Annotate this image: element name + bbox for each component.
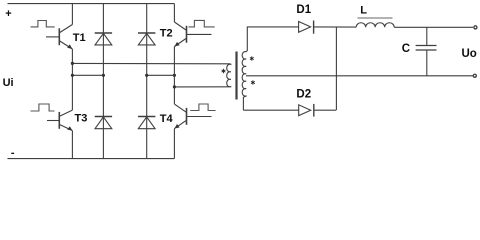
wire L to output top <box>394 26 473 28</box>
svg-text:T4: T4 <box>160 113 174 125</box>
wire lower bus segment A (leg1 to leg2) <box>72 74 103 76</box>
freewheel diode top-left on leg2 <box>95 33 112 45</box>
transformer secondary winding <box>242 51 247 110</box>
wire secondary center tap to output bottom <box>246 75 473 77</box>
transistor T4 (mirrored) <box>174 104 211 129</box>
wire negative input rail <box>8 158 175 160</box>
transistor T1 <box>46 25 72 50</box>
freewheel diode top-right on leg3 <box>138 33 155 45</box>
freewheel diode bottom-left on leg2 <box>95 117 112 129</box>
polarity dot primary <box>222 69 226 73</box>
transformer primary winding <box>227 64 231 87</box>
gate pulse waveform for T4 <box>190 104 215 111</box>
wire D1/D2 cathode join vertical <box>335 27 337 110</box>
wire node B to primary bottom <box>174 86 229 88</box>
svg-text:Uo: Uo <box>462 48 477 60</box>
wire leg2 (freewheel diode leg, top rail to bottom rail) <box>102 4 104 159</box>
svg-text:T2: T2 <box>160 28 173 40</box>
svg-text:+: + <box>5 8 11 20</box>
wire upper bridge bus node A to primary top <box>72 62 229 64</box>
polarity dot secondary top <box>250 56 254 60</box>
junction leg4 lower bus <box>173 74 176 77</box>
output terminal top <box>474 26 477 29</box>
gate pulse waveform for T3 <box>31 104 55 111</box>
wire positive input rail <box>8 3 175 5</box>
wire leg4 mid segment (T2 emitter to T4 collector, node B) <box>173 47 175 105</box>
transistor T3 <box>47 110 72 131</box>
wire leg1 collector segment (top rail to T1) <box>71 4 73 25</box>
wire leg4 bottom segment (T4 emitter to negative rail) <box>173 129 175 159</box>
gate pulse waveform for T2 <box>189 20 215 27</box>
wire leg1 bottom segment (T3 emitter to negative rail) <box>71 131 73 159</box>
svg-text:T3: T3 <box>75 112 88 124</box>
svg-text:-: - <box>11 147 15 159</box>
gate pulse waveform for T1 <box>31 21 55 27</box>
svg-text:C: C <box>402 43 410 55</box>
svg-text:T1: T1 <box>73 32 86 44</box>
svg-text:D1: D1 <box>296 4 311 16</box>
junction leg4 primary bottom <box>173 85 176 88</box>
junction leg2 lower bus <box>102 74 105 77</box>
svg-text:Ui: Ui <box>3 77 14 89</box>
capacitor C <box>416 27 437 76</box>
wire D2 cathode to join vertical <box>314 109 336 111</box>
transistor T2 (mirrored) <box>174 22 211 47</box>
wire leg1 mid segment (T1 emitter to T3 collector, node A) <box>71 49 73 110</box>
junction leg3 lower bus <box>145 74 148 77</box>
wire leg3 (freewheel diode leg, top rail to bottom rail) <box>146 4 148 159</box>
junction node A lower <box>71 74 74 77</box>
label L underline <box>358 17 393 19</box>
polarity dot secondary bottom <box>251 80 255 84</box>
transformer core <box>235 52 237 100</box>
junction node A upper <box>71 62 74 65</box>
wire lower bus segment B (leg3 to leg4) <box>147 74 175 76</box>
inductor L <box>356 23 394 28</box>
svg-text:D2: D2 <box>296 88 311 100</box>
wire secondary top lead up <box>247 27 298 51</box>
diode D1 <box>299 21 314 34</box>
svg-text:L: L <box>360 5 367 17</box>
freewheel diode bottom-right on leg3 <box>138 117 155 129</box>
wire D1 cathode to L node <box>314 26 357 28</box>
output terminal bottom <box>473 74 476 77</box>
wire secondary bottom lead to D2 <box>243 109 298 111</box>
wire leg4 collector segment (top rail to T2) <box>173 4 175 22</box>
diode D2 <box>299 104 314 117</box>
